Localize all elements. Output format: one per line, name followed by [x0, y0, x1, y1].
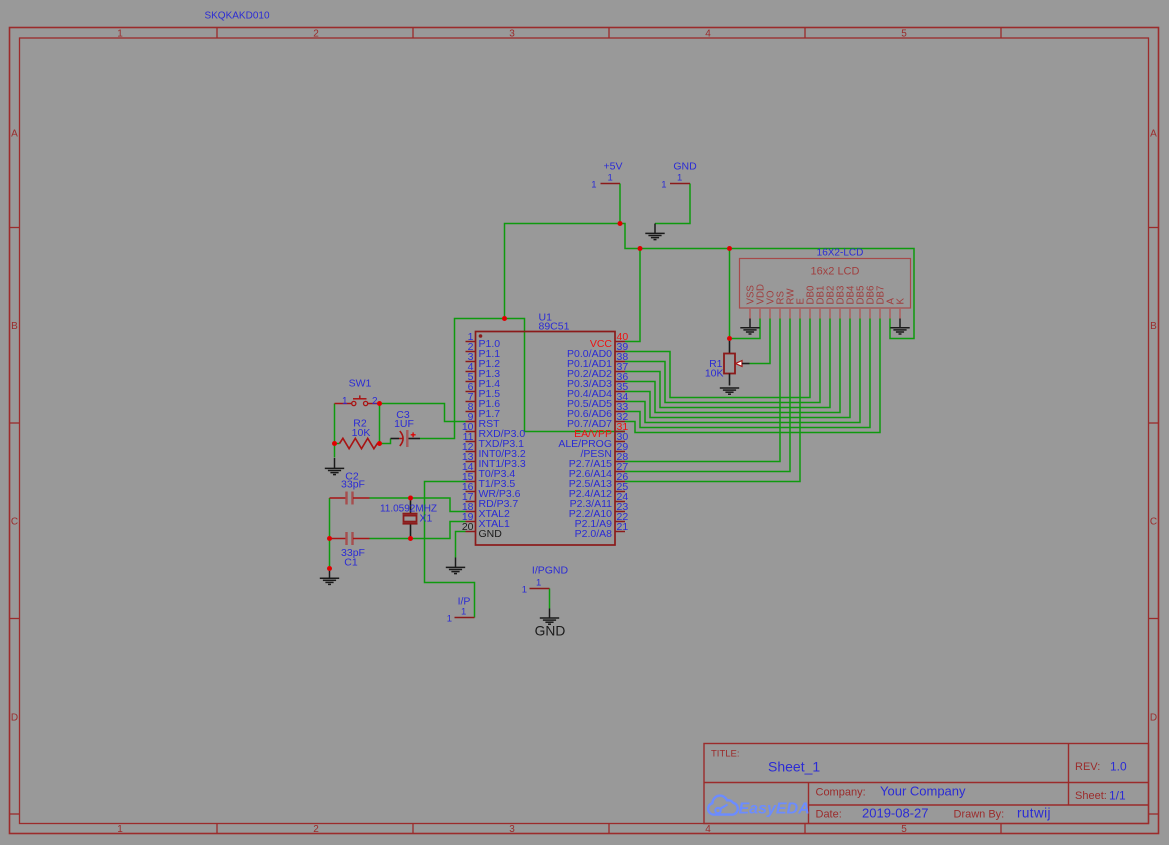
power flag GND (top) — [661, 161, 697, 191]
svg-text:1: 1 — [661, 180, 666, 191]
junction SW1 pin2 — [377, 401, 382, 406]
svg-text:21: 21 — [617, 521, 629, 533]
wire LCD E to pin 26 — [625, 319, 800, 482]
svg-text:20: 20 — [462, 521, 474, 533]
pin 17 RD/P3.7 — [462, 491, 519, 510]
svg-text:SW1: SW1 — [349, 378, 372, 390]
wire node to C3 positive — [420, 319, 505, 439]
wire LCD RW to pin 27 — [625, 319, 790, 472]
wire C2 to XTAL2 pin 18 — [370, 498, 466, 512]
junction C1 left — [327, 536, 332, 541]
LCD pin E — [796, 298, 807, 319]
svg-text:1: 1 — [591, 180, 596, 191]
pin 13 INT1/P3.3 — [462, 451, 526, 470]
LCD pin RW — [786, 288, 797, 319]
pin 22 P2.1/A9 — [575, 511, 629, 530]
svg-text:P2.0/A8: P2.0/A8 — [575, 528, 613, 540]
wire rail to R1 top — [729, 249, 731, 339]
svg-text:10K: 10K — [352, 427, 371, 439]
svg-text:3: 3 — [509, 29, 515, 40]
capacitor C2 33pF — [330, 471, 370, 505]
junction VCC rail — [638, 246, 643, 251]
svg-text:1: 1 — [447, 614, 452, 625]
ground symbol for GND flag — [645, 224, 664, 240]
wire rail to VCC pin 40 — [625, 249, 640, 342]
pin 24 P2.3/A11 — [570, 491, 629, 510]
junction crystal top — [408, 496, 413, 501]
svg-text:A: A — [11, 129, 18, 140]
junction R1 rail — [727, 246, 732, 251]
svg-text:1: 1 — [117, 29, 123, 40]
pin 11 TXD/P3.1 — [463, 431, 525, 450]
wire R2 left to ground — [334, 444, 336, 458]
junction R2 right — [377, 441, 382, 446]
svg-text:1UF: 1UF — [394, 418, 414, 430]
pin 6 P1.5 — [466, 381, 501, 400]
svg-text:1: 1 — [536, 578, 541, 589]
EasyEDA logo — [708, 796, 810, 818]
svg-text:16x2 LCD: 16x2 LCD — [811, 266, 860, 278]
svg-text:B: B — [1150, 321, 1157, 332]
pin 30 ALE/PROG — [558, 431, 628, 450]
wire I/PGND pin to ground — [549, 589, 551, 609]
pin 7 P1.6 — [466, 391, 501, 410]
LCD pin A — [886, 298, 897, 319]
LCD pin DB1 — [816, 286, 827, 319]
svg-text:SKQKAKD010: SKQKAKD010 — [204, 11, 269, 22]
junction crystal bottom — [408, 536, 413, 541]
svg-text:I/PGND: I/PGND — [532, 565, 569, 577]
ground symbol R1 — [720, 387, 739, 389]
pin 9 RST — [466, 411, 501, 430]
wire LCD DB2 to pin 37 — [625, 319, 830, 408]
wire LCD RS to pin 28 — [625, 319, 780, 462]
wire R1 top to LCD VDD — [730, 319, 761, 339]
LCD pin DB3 — [836, 286, 847, 319]
svg-text:+5V: +5V — [604, 161, 623, 173]
LCD pin VDD — [756, 284, 767, 318]
junction C1 ground — [327, 566, 332, 571]
pin 12 INT0/P3.2 — [462, 441, 526, 460]
junction R2 left — [332, 441, 337, 446]
power flag +5V — [591, 161, 622, 191]
svg-text:16X2-LCD: 16X2-LCD — [817, 248, 864, 259]
capacitor C3 1UF — [391, 409, 421, 447]
pin 23 P2.2/A10 — [569, 501, 629, 520]
svg-text:5: 5 — [901, 824, 907, 835]
svg-text:D: D — [1150, 713, 1157, 724]
svg-text:C: C — [1150, 517, 1157, 528]
svg-text:REV:: REV: — [1075, 761, 1100, 773]
LCD module 16X2-LCD body — [740, 248, 911, 309]
svg-text:EasyEDA: EasyEDA — [739, 801, 810, 818]
svg-text:5: 5 — [901, 29, 907, 40]
pin 8 P1.7 — [466, 401, 501, 420]
pin 21 P2.0/A8 — [575, 521, 629, 540]
wire R2 right to C3 negative — [380, 439, 391, 444]
wire SW1 pin1 to R2 left — [334, 404, 336, 444]
junction +5V — [618, 221, 623, 226]
wire LCD DB4 to pin 35 — [625, 319, 850, 418]
wire LCD DB7 to pin 32 — [625, 319, 880, 433]
LCD pin K — [896, 298, 907, 319]
ground symbol SW1/R2 — [325, 458, 344, 475]
svg-text:1: 1 — [608, 173, 613, 184]
svg-text:1: 1 — [342, 396, 348, 407]
pin 36 P0.3/AD3 — [567, 371, 628, 390]
svg-text:3: 3 — [509, 824, 515, 835]
svg-text:2: 2 — [372, 396, 378, 407]
pin 38 P0.1/AD1 — [567, 351, 628, 370]
pin 1 P1.0 — [466, 331, 501, 350]
pin 10 RXD/P3.0 — [462, 421, 526, 440]
pin 39 P0.0/AD0 — [567, 341, 628, 360]
crystal X1 11.0592MHZ — [380, 498, 437, 539]
wire R1 wiper to LCD VO — [750, 319, 771, 364]
svg-text:1: 1 — [522, 585, 527, 596]
pin 16 WR/P3.6 — [462, 481, 521, 500]
wire C2 left rail — [329, 498, 331, 569]
svg-text:TITLE:: TITLE: — [711, 749, 740, 760]
ground symbol LCD VSS — [740, 319, 759, 335]
LCD pin DB7 — [876, 286, 887, 319]
pin 28 P2.7/A15 — [569, 451, 629, 470]
pin 25 P2.4/A12 — [569, 481, 629, 500]
ground symbol C1/C2 — [320, 569, 339, 585]
pin 29 /PESN — [580, 441, 628, 460]
svg-text:1: 1 — [677, 173, 682, 184]
svg-text:Company:: Company: — [816, 787, 866, 799]
wire SW1 pin2 to R2 right — [379, 404, 381, 444]
pin 27 P2.6/A14 — [569, 461, 629, 480]
wire LCD DB1 to pin 38 — [625, 319, 820, 403]
svg-text:GND: GND — [673, 161, 697, 173]
title block — [704, 744, 1149, 824]
capacitor C1 33pF — [330, 532, 370, 569]
svg-text:D: D — [11, 713, 18, 724]
svg-text:Date:: Date: — [816, 809, 842, 821]
pin 26 P2.5/A13 — [569, 471, 629, 490]
resistor R2 10K — [335, 418, 380, 449]
wire GND flag to ground — [655, 184, 690, 224]
svg-text:Your Company: Your Company — [880, 784, 966, 799]
potentiometer R1 10K — [705, 339, 750, 386]
pin 20 GND — [462, 521, 502, 540]
wire +5V rail to LCD A pin — [620, 224, 914, 339]
svg-text:10K: 10K — [705, 368, 724, 380]
svg-text:89C51: 89C51 — [539, 321, 570, 333]
pin 19 XTAL1 — [462, 511, 510, 530]
wire LCD DB3 to pin 36 — [625, 319, 840, 413]
pin 5 P1.4 — [466, 371, 501, 390]
svg-text:Drawn By:: Drawn By: — [954, 809, 1005, 821]
LCD pin VSS — [746, 285, 757, 319]
LCD pin DB4 — [846, 285, 857, 318]
svg-text:2019-08-27: 2019-08-27 — [862, 806, 929, 821]
wire node to EA/VPP pin 31 — [505, 319, 626, 432]
wire GND pin 20 to ground — [456, 532, 466, 558]
svg-text:C: C — [11, 517, 18, 528]
wire I/P to T1 pin 15 — [425, 482, 475, 618]
LCD pin VO — [766, 290, 777, 318]
svg-text:4: 4 — [705, 29, 711, 40]
junction R1 top — [727, 336, 732, 341]
wire LCD DB0 to pin 39 — [625, 319, 810, 398]
LCD pin RS — [776, 291, 787, 319]
pin 2 P1.1 — [466, 341, 501, 360]
pin 32 P0.7/AD7 — [567, 411, 628, 430]
ground symbol U1 GND pin — [446, 558, 465, 574]
ground symbol LCD K — [890, 319, 909, 335]
svg-text:1/1: 1/1 — [1109, 789, 1126, 803]
pin 40 VCC — [590, 331, 629, 350]
svg-text:2: 2 — [313, 29, 319, 40]
connector I/P — [447, 596, 475, 625]
pin 3 P1.2 — [466, 351, 501, 370]
svg-text:GND: GND — [535, 624, 566, 639]
wire SW1 pin2 to RST pin 9 — [380, 404, 466, 422]
switch SW1 — [335, 378, 380, 408]
pin 31 EA/VPP — [574, 421, 628, 440]
pin 35 P0.4/AD4 — [567, 381, 628, 400]
ground symbol I/PGND — [540, 609, 559, 625]
svg-text:1: 1 — [461, 607, 466, 618]
svg-text:C1: C1 — [344, 557, 358, 569]
wire LCD DB6 to pin 33 — [625, 319, 870, 428]
pin 34 P0.5/AD5 — [567, 391, 628, 410]
svg-text:B: B — [11, 321, 18, 332]
pin 4 P1.3 — [466, 361, 501, 380]
svg-text:4: 4 — [705, 824, 711, 835]
LCD pin DB2 — [826, 286, 837, 319]
svg-text:rutwij: rutwij — [1017, 806, 1051, 821]
wire LCD DB5 to pin 34 — [625, 319, 860, 423]
svg-text:2: 2 — [313, 824, 319, 835]
LCD pin DB6 — [866, 286, 877, 319]
pin 18 XTAL2 — [462, 501, 510, 520]
pin 33 P0.6/AD6 — [567, 401, 628, 420]
pin 37 P0.2/AD2 — [567, 361, 628, 380]
LCD pin DB0 — [806, 285, 817, 318]
svg-text:GND: GND — [479, 528, 503, 540]
junction EA/VPP branch — [502, 316, 507, 321]
svg-text:Sheet:: Sheet: — [1075, 790, 1107, 802]
svg-text:A: A — [1150, 129, 1157, 140]
svg-text:X1: X1 — [420, 513, 433, 525]
LCD pin DB5 — [856, 286, 867, 319]
wire +5V junction left to node — [505, 224, 621, 319]
svg-text:K: K — [896, 298, 907, 305]
IC U1 89C51 body — [476, 312, 616, 546]
connector I/PGND — [522, 565, 569, 596]
pin 15 T1/P3.5 — [462, 471, 516, 490]
pin 14 T0/P3.4 — [462, 461, 516, 480]
svg-text:33pF: 33pF — [341, 479, 365, 491]
wire +5V pin to junction — [619, 184, 621, 224]
svg-text:1: 1 — [117, 824, 123, 835]
svg-text:1.0: 1.0 — [1110, 760, 1127, 774]
wire C1 to XTAL1 pin 19 — [370, 522, 466, 539]
svg-text:Sheet_1: Sheet_1 — [768, 759, 820, 775]
